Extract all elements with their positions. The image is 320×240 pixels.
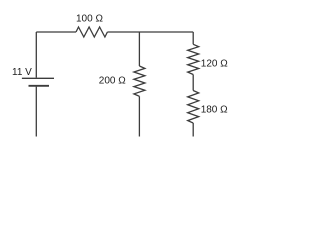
voltage source V1 : short negative plate xyxy=(29,85,50,87)
svg-text:120 Ω: 120 Ω xyxy=(201,59,228,70)
wire left vertical from node A down to battery + xyxy=(35,32,37,78)
wire middle branch stub from top wire to R2 xyxy=(138,32,140,66)
svg-text:11 V: 11 V xyxy=(12,67,32,78)
voltage source V1 11 V (battery) : long positive plate xyxy=(22,77,54,79)
resistor R1 100 Ω (horizontal) xyxy=(76,27,107,37)
resistor R3 120 Ω (vertical right branch upper) xyxy=(188,44,199,74)
wire left vertical below battery xyxy=(35,87,37,137)
svg-text:100 Ω: 100 Ω xyxy=(76,14,103,25)
wire right vertical stub from top wire to R3 xyxy=(192,32,194,44)
wire top horizontal right of R1 xyxy=(107,31,193,33)
wire right branch below R4 xyxy=(192,123,194,137)
resistor R2 200 Ω (vertical middle branch) xyxy=(134,66,145,96)
svg-text:200 Ω: 200 Ω xyxy=(99,75,126,86)
svg-text:180 Ω: 180 Ω xyxy=(201,104,228,115)
wire top horizontal (node A to node B) xyxy=(36,31,76,33)
resistor R4 180 Ω (vertical right branch lower) xyxy=(188,91,199,124)
wire right branch between R3 and R4 xyxy=(192,75,194,91)
wire middle branch below R2 xyxy=(138,96,140,136)
